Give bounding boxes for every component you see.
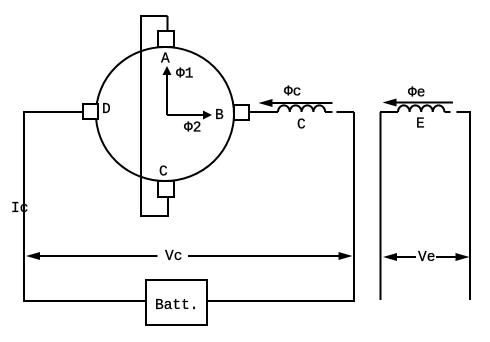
svg-text:Φc: Φc [284,85,301,101]
svg-text:D: D [102,102,111,118]
svg-text:Φe: Φe [408,86,425,102]
svg-text:A: A [161,52,170,68]
svg-text:Ic: Ic [11,201,28,217]
svg-text:Batt.: Batt. [155,298,199,314]
svg-text:B: B [215,108,224,124]
svg-text:Ve: Ve [418,250,435,266]
svg-text:C: C [297,118,306,134]
svg-text:Φ1: Φ1 [176,67,193,83]
svg-text:C: C [159,165,168,181]
svg-text:E: E [416,117,425,133]
svg-text:Vc: Vc [165,249,182,265]
svg-text:Φ2: Φ2 [184,121,201,137]
